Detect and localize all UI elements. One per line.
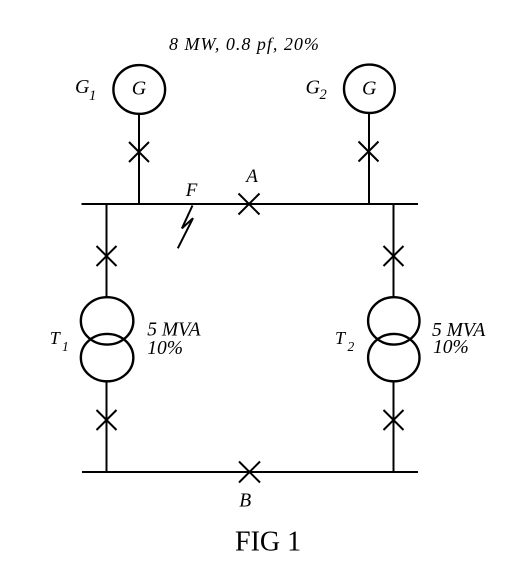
svg-text:F: F	[185, 180, 198, 201]
svg-text:G: G	[306, 77, 321, 99]
svg-text:B: B	[239, 491, 251, 512]
svg-text:FIG 1: FIG 1	[235, 526, 301, 557]
svg-text:10%: 10%	[147, 338, 183, 359]
svg-text:8 MW, 0.8 pf, 20%: 8 MW, 0.8 pf, 20%	[169, 34, 320, 54]
svg-text:1: 1	[89, 88, 96, 104]
svg-text:A: A	[244, 166, 258, 187]
svg-text:2: 2	[320, 87, 327, 103]
svg-text:G: G	[75, 76, 90, 98]
svg-text:10%: 10%	[433, 337, 469, 358]
svg-text:2: 2	[348, 339, 355, 354]
svg-text:1: 1	[62, 339, 69, 354]
svg-text:G: G	[362, 78, 377, 100]
svg-text:G: G	[132, 78, 147, 100]
